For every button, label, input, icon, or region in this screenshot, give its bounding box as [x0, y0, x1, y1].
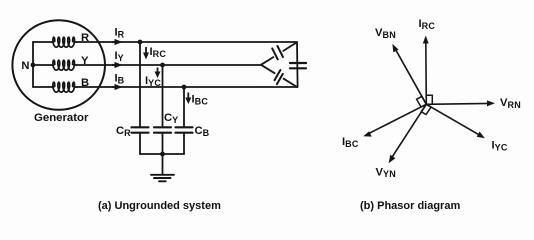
svg-text:IYC: IYC: [492, 140, 508, 153]
svg-text:VRN: VRN: [500, 97, 521, 110]
svg-text:(a) Ungrounded system: (a) Ungrounded system: [98, 200, 221, 212]
node on R line: [138, 40, 143, 45]
right-angle marker IRC-VRN: [426, 95, 432, 104]
wire stub B: [33, 86, 53, 88]
capacitor Y-B (bottom slant): [275, 70, 283, 84]
wire stub R: [33, 41, 53, 43]
wire capacitor branch B: [183, 87, 185, 154]
node N: [21, 60, 35, 72]
wire ground stem: [162, 154, 164, 175]
current arrow IRC: [143, 46, 166, 60]
phasor IRC: [419, 18, 436, 104]
current arrow IYC: [145, 68, 161, 88]
capacitor CB: [176, 127, 193, 132]
capacitor R-Y (top slant): [272, 46, 283, 59]
winding Y coil: [52, 60, 76, 70]
svg-text:CB: CB: [195, 125, 210, 138]
wire delta bottom slant: [261, 65, 297, 87]
svg-text:IY: IY: [115, 50, 124, 63]
phasor IYC: [426, 104, 508, 152]
svg-text:IRC: IRC: [150, 46, 167, 59]
svg-text:Generator: Generator: [34, 112, 89, 124]
wire capacitor branch R: [139, 42, 141, 154]
phasor VYN: [376, 104, 427, 179]
right-angle marker VYN-IYC: [421, 104, 431, 114]
svg-text:(b) Phasor diagram: (b) Phasor diagram: [360, 200, 460, 212]
phasor IBC: [342, 104, 426, 149]
current arrow IBC: [185, 93, 208, 107]
svg-text:IBC: IBC: [342, 136, 359, 149]
current arrow IB: [112, 73, 125, 91]
phasor VBN: [375, 27, 426, 104]
svg-text:IRC: IRC: [419, 18, 436, 31]
svg-text:R: R: [81, 32, 89, 44]
wire Y line: [76, 64, 261, 66]
svg-text:N: N: [21, 60, 29, 72]
wire capacitor branch Y: [162, 65, 164, 154]
current arrow IR: [112, 27, 125, 46]
wire stub Y: [33, 64, 53, 66]
ground: [151, 175, 174, 182]
generator circle: [12, 20, 105, 110]
svg-text:VYN: VYN: [376, 166, 397, 179]
capacitor CR: [132, 127, 149, 132]
capacitor CY: [154, 127, 171, 132]
svg-text:Y: Y: [81, 55, 89, 67]
winding B coil: [52, 82, 76, 92]
wire delta top slant: [261, 42, 297, 65]
phasor VRN: [426, 97, 521, 110]
current arrow IY: [112, 50, 124, 68]
node ground bus junction: [160, 152, 165, 157]
svg-text:IR: IR: [115, 27, 125, 40]
winding R coil: [52, 37, 76, 47]
svg-text:IB: IB: [115, 73, 125, 86]
wire delta right vertical: [296, 42, 299, 87]
svg-text:IBC: IBC: [192, 94, 209, 107]
svg-text:CY: CY: [164, 112, 178, 125]
svg-text:B: B: [81, 77, 89, 89]
wire ground bus: [140, 153, 184, 155]
neutral bus wire: [32, 42, 34, 87]
svg-text:VBN: VBN: [375, 27, 396, 40]
right-angle marker VBN-IBC: [417, 96, 427, 107]
wire R line: [76, 41, 297, 43]
wire B line: [76, 86, 297, 88]
node on Y line: [160, 63, 165, 68]
node on B line: [182, 85, 187, 90]
svg-text:CR: CR: [116, 125, 131, 138]
svg-text:IYC: IYC: [145, 75, 161, 88]
capacitor R-B (right vertical): [290, 63, 306, 68]
